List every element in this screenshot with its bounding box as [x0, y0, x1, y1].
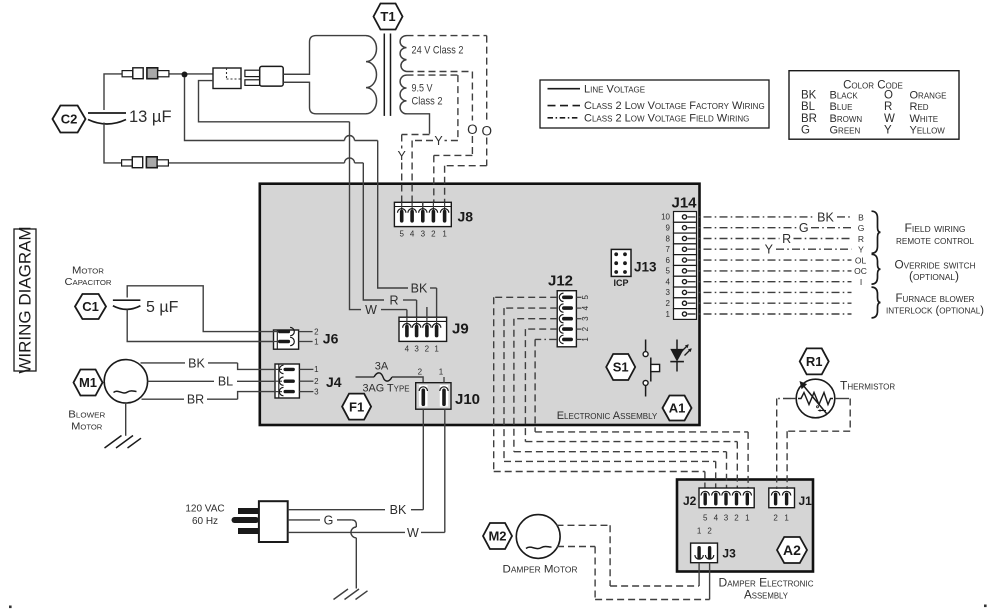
wire thermistor left to J1 pin2 [777, 399, 797, 490]
svg-text:3: 3 [724, 514, 729, 523]
svg-text:A1: A1 [669, 401, 686, 416]
wire M1 BR to J4 pin3 [142, 392, 276, 407]
svg-text:3AG Type: 3AG Type [363, 383, 410, 395]
svg-text:OL: OL [855, 255, 867, 265]
assembly A2 [777, 537, 807, 563]
title WIRING DIAGRAM [14, 226, 36, 373]
capacitor C2 symbol 13uF [88, 108, 172, 126]
brace furnace blower interlock [872, 287, 881, 318]
ground M1 [105, 436, 142, 449]
svg-text:Green: Green [830, 124, 861, 136]
junction node [182, 72, 188, 78]
svg-text:1: 1 [314, 337, 319, 346]
wire C1 bottom to J6 pin1 [127, 310, 273, 342]
switch S1 [606, 354, 635, 380]
ground G [334, 589, 368, 600]
transformer T1 24V secondary [400, 36, 463, 72]
capacitor C1 [75, 294, 106, 319]
svg-text:5: 5 [399, 230, 404, 239]
svg-text:7: 7 [666, 245, 671, 254]
svg-text:J8: J8 [458, 209, 474, 225]
svg-text:W: W [365, 303, 377, 317]
connector J8 pin3 stub [422, 202, 424, 208]
assembly A1 [663, 396, 692, 421]
svg-text:2: 2 [314, 377, 319, 386]
svg-text:A2: A2 [783, 542, 801, 558]
svg-text:J6: J6 [323, 331, 339, 347]
svg-text:G: G [858, 223, 865, 233]
svg-text:3: 3 [581, 316, 590, 321]
svg-text:WIRING DIAGRAM: WIRING DIAGRAM [16, 226, 35, 373]
svg-text:ICP: ICP [613, 278, 628, 288]
svg-text:6: 6 [666, 256, 671, 265]
svg-text:J4: J4 [326, 374, 342, 390]
svg-text:4: 4 [581, 305, 590, 310]
svg-text:2: 2 [707, 527, 712, 536]
wire M1 BL to J4 pin2 [148, 375, 275, 389]
caption dot right [984, 605, 987, 608]
fuse F1 symbol 3A [356, 361, 424, 395]
LED indicator [670, 340, 692, 372]
connector J10 [416, 368, 480, 410]
wire J14 pin9 G field [688, 221, 852, 235]
wire C2-bottom to R (J9 pin3) [363, 163, 416, 319]
capacitor C2 [53, 106, 86, 133]
svg-text:Y: Y [434, 134, 443, 148]
svg-text:3: 3 [421, 230, 426, 239]
wire J14 pin6 field [688, 259, 852, 261]
svg-text:Class 2 Low Voltage Factory Wi: Class 2 Low Voltage Factory Wiring [584, 100, 765, 112]
svg-text:R: R [389, 293, 398, 307]
connector J3 [691, 527, 736, 563]
svg-text:interlock (optional): interlock (optional) [886, 304, 984, 316]
svg-text:W: W [884, 113, 895, 125]
svg-text:R: R [858, 234, 864, 244]
svg-text:BK: BK [188, 356, 205, 370]
svg-text:4: 4 [666, 277, 671, 286]
svg-text:5: 5 [666, 267, 671, 276]
blower motor circle [104, 360, 147, 403]
wire J14 pin1 field [688, 313, 852, 315]
wire J14 pin3 field [688, 291, 852, 293]
svg-text:J10: J10 [455, 391, 480, 408]
motor M2 [483, 523, 512, 549]
svg-text:BR: BR [801, 113, 817, 125]
svg-text:1: 1 [666, 310, 671, 319]
svg-text:4: 4 [410, 230, 415, 239]
svg-text:Line Voltage: Line Voltage [584, 83, 645, 95]
wire J14 pin8 R field [688, 232, 852, 246]
svg-text:Y: Y [858, 245, 864, 255]
svg-text:1: 1 [697, 527, 702, 536]
wire J14 pin4 field [688, 281, 852, 283]
wire J14 pin2 field [688, 302, 852, 304]
brace override switch [872, 254, 881, 284]
svg-text:B: B [858, 212, 864, 222]
motor M1 [74, 370, 103, 396]
svg-text:3A: 3A [375, 361, 389, 373]
svg-text:remote control: remote control [896, 235, 975, 247]
svg-text:9: 9 [666, 223, 671, 232]
wire plug to primary [283, 74, 309, 82]
transformer T1 [374, 4, 403, 30]
svg-text:O: O [467, 122, 478, 137]
svg-text:Motor: Motor [72, 266, 104, 277]
wire plug W to J10 pin1 [288, 409, 445, 540]
svg-text:OC: OC [854, 266, 867, 276]
svg-text:1: 1 [439, 368, 444, 377]
svg-text:S1: S1 [613, 360, 629, 375]
wire plug BK to J10 pin2 [288, 409, 424, 517]
svg-text:2: 2 [431, 230, 436, 239]
svg-text:2: 2 [418, 368, 423, 377]
label furnace blower interlock [886, 293, 984, 317]
wire plug G to ground [288, 513, 357, 588]
svg-text:Field wiring: Field wiring [905, 223, 966, 235]
svg-text:Assembly: Assembly [744, 588, 789, 602]
svg-text:5: 5 [703, 514, 708, 523]
damper motor circle [516, 515, 560, 559]
svg-text:R1: R1 [806, 354, 823, 369]
label field wiring remote control [896, 223, 975, 247]
svg-text:Override switch: Override switch [895, 260, 976, 272]
svg-text:24 V Class 2: 24 V Class 2 [412, 45, 464, 57]
thermal cutout box [213, 68, 241, 89]
svg-text:Yellow: Yellow [910, 124, 946, 136]
svg-text:White: White [910, 113, 939, 125]
svg-text:1: 1 [581, 337, 590, 342]
svg-text:2: 2 [581, 326, 590, 331]
svg-text:Red: Red [910, 101, 929, 113]
thermistor symbol [796, 379, 835, 418]
svg-text:Black: Black [830, 90, 859, 102]
svg-text:BK: BK [801, 90, 817, 102]
connector J1 [769, 488, 812, 523]
quick-connect terminals bottom [122, 157, 169, 168]
svg-text:10: 10 [661, 213, 670, 222]
electronic assembly A1 board [260, 184, 700, 425]
svg-text:Y: Y [765, 243, 774, 257]
svg-text:2: 2 [425, 345, 430, 354]
wire 24V top to J8 pin1 (O) [407, 36, 487, 208]
svg-text:I: I [860, 277, 862, 287]
svg-text:J13: J13 [634, 260, 657, 275]
svg-text:G: G [324, 513, 334, 527]
fuse F1 [342, 394, 371, 420]
wire J12 pin4 to J2 [504, 308, 716, 489]
svg-text:60 Hz: 60 Hz [192, 516, 218, 527]
svg-text:4: 4 [714, 514, 719, 523]
damper electronic assembly A2 board [677, 480, 813, 572]
switch S1 symbol [643, 340, 660, 397]
wire cutout to W (J9 pin4) [199, 81, 407, 319]
wire 9.5V top to J8 pin4 (Y) [407, 75, 458, 208]
wire M2 bottom to J3 pin2 [557, 547, 710, 600]
wire J14 pin7 Y field [688, 243, 852, 257]
wire C2 top loop [104, 74, 213, 110]
svg-text:J3: J3 [722, 547, 736, 561]
svg-text:5: 5 [581, 295, 590, 300]
legend box [540, 80, 769, 128]
plug connector to primary [245, 66, 283, 86]
svg-text:1: 1 [745, 514, 750, 523]
svg-text:1: 1 [314, 365, 319, 374]
label blower motor [68, 410, 105, 433]
connector J8 [394, 202, 473, 238]
connector J12 [548, 273, 590, 347]
wire C1 top to J6 pin2 [127, 286, 273, 332]
svg-text:J14: J14 [671, 195, 697, 212]
label motor capacitor [65, 266, 112, 289]
svg-text:G: G [801, 124, 810, 136]
svg-text:G: G [799, 221, 809, 235]
svg-text:O: O [481, 124, 492, 139]
wire junction to BK (J9 pin1) [185, 77, 437, 319]
svg-text:Motor: Motor [71, 422, 102, 433]
connector J6 [274, 327, 339, 349]
svg-text:13 µF: 13 µF [129, 108, 172, 126]
svg-text:F1: F1 [349, 399, 364, 414]
svg-text:O: O [884, 90, 893, 102]
wire thermistor right to J1 pin1 [787, 399, 850, 490]
svg-text:Thermistor: Thermistor [840, 379, 895, 393]
svg-text:BL: BL [801, 101, 816, 113]
thermistor R1 [800, 348, 829, 374]
wire J12 pin5 to J2 [494, 297, 705, 489]
svg-text:Brown: Brown [830, 113, 863, 125]
svg-text:120 VAC: 120 VAC [185, 504, 224, 515]
connector J13 ICP [611, 249, 657, 288]
svg-text:J2: J2 [683, 494, 697, 508]
svg-text:Class 2 Low Voltage Field Wiri: Class 2 Low Voltage Field Wiring [584, 112, 749, 124]
svg-text:BK: BK [817, 210, 834, 224]
svg-text:Blower: Blower [68, 410, 105, 421]
svg-text:2: 2 [773, 514, 778, 523]
svg-text:1: 1 [784, 514, 789, 523]
svg-text:C2: C2 [61, 112, 78, 127]
svg-text:R: R [884, 101, 892, 113]
capacitor C1 symbol 5uF [113, 299, 179, 316]
connector J2 [683, 488, 754, 523]
transformer T1 9.5V secondary [400, 75, 442, 114]
svg-text:Capacitor: Capacitor [65, 277, 112, 288]
svg-text:Y: Y [884, 124, 892, 136]
svg-text:Y: Y [398, 149, 407, 163]
svg-text:9.5 V: 9.5 V [412, 83, 434, 95]
svg-text:Damper Motor: Damper Motor [503, 564, 578, 576]
caption dot left [9, 606, 12, 609]
svg-text:J1: J1 [799, 494, 813, 508]
svg-text:3: 3 [314, 387, 319, 396]
label override switch [895, 260, 976, 284]
svg-text:T1: T1 [380, 9, 395, 24]
120VAC plug [185, 501, 287, 542]
svg-text:BK: BK [411, 281, 428, 295]
connector J9 [399, 317, 469, 353]
svg-text:Class 2: Class 2 [412, 96, 443, 108]
wire 24V bottom to J8 pin2 (O) [407, 72, 473, 209]
svg-text:Orange: Orange [910, 90, 947, 102]
svg-text:5 µF: 5 µF [146, 299, 179, 316]
transformer T1 core [384, 34, 390, 116]
svg-text:M2: M2 [488, 529, 506, 544]
connector J4 [275, 364, 342, 398]
wire J12 pin2 to J2 [525, 329, 737, 489]
svg-text:R: R [782, 232, 791, 246]
wire M1 to ground [125, 403, 127, 436]
svg-text:4: 4 [405, 345, 410, 354]
brace field wiring [872, 211, 881, 253]
svg-text:BR: BR [187, 393, 204, 407]
connector J9 pin2 stub [426, 307, 428, 319]
wire J14 pin5 field [688, 270, 852, 272]
svg-text:Blue: Blue [830, 101, 853, 113]
svg-text:C1: C1 [82, 299, 99, 314]
svg-text:2: 2 [666, 299, 671, 308]
wire J12 pin3 to J2 [514, 319, 727, 489]
svg-text:M1: M1 [79, 375, 97, 390]
wire M2 top to J3 pin1 [557, 525, 700, 586]
svg-text:3: 3 [666, 288, 671, 297]
svg-text:2: 2 [734, 514, 739, 523]
wire 9.5V bottom to J8 pin5 (Y) [402, 114, 430, 208]
svg-text:Electronic Assembly: Electronic Assembly [557, 410, 658, 422]
connector J14 [661, 195, 697, 320]
wire J14 pin10 BK field [688, 210, 852, 224]
quick-connect terminals top [122, 68, 169, 79]
wire C2 bottom loop [104, 123, 363, 163]
svg-text:1: 1 [434, 345, 439, 354]
label damper electronic assembly [719, 576, 814, 602]
svg-text:J9: J9 [452, 321, 469, 338]
svg-text:1: 1 [442, 230, 447, 239]
svg-text:Furnace blower: Furnace blower [896, 293, 975, 305]
svg-text:3: 3 [414, 345, 419, 354]
terminal letters B G R Y OL OC I [854, 212, 867, 287]
wire M1 BK to J4 pin1 [141, 356, 276, 370]
transformer T1 primary winding [284, 36, 377, 114]
svg-text:8: 8 [666, 234, 671, 243]
svg-text:W: W [407, 526, 419, 540]
wire J12 pin1 to J2 [535, 339, 748, 489]
svg-text:(optional): (optional) [909, 271, 959, 283]
svg-text:J12: J12 [548, 273, 573, 290]
svg-text:BK: BK [390, 503, 407, 517]
svg-text:2: 2 [314, 327, 319, 336]
color code box [789, 71, 959, 140]
svg-text:BL: BL [218, 375, 233, 389]
